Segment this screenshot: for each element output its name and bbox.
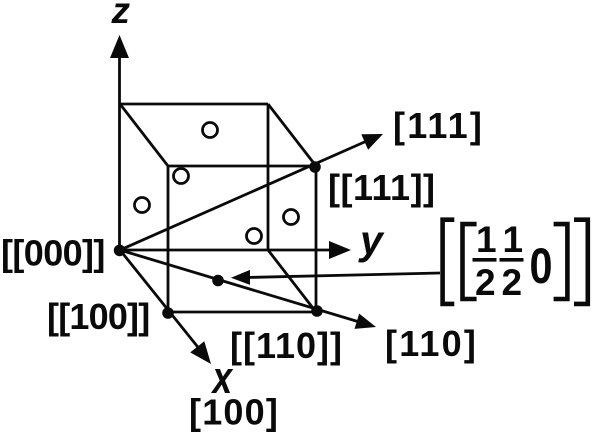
bracket inner left	[463, 224, 477, 299]
bracket outer left	[443, 220, 455, 304]
fraction bar second	[500, 258, 524, 262]
wire: cube front-left vertical edge	[167, 166, 170, 312]
svg-text:[100]: [100]	[189, 392, 279, 433]
arrowhead y axis	[329, 241, 351, 259]
svg-text:[111]: [111]	[393, 105, 484, 146]
atom circle front face center	[247, 229, 262, 244]
atom circle back face center	[174, 169, 189, 184]
arrowhead [110]	[355, 314, 377, 329]
wire: cube top back edge	[120, 103, 268, 106]
node [[100]]	[162, 307, 174, 319]
wire: cube bottom right oblique edge	[268, 250, 316, 312]
svg-text:[[100]]: [[100]]	[47, 296, 149, 337]
node [[110]]	[311, 305, 323, 317]
wire: y axis shaft	[120, 249, 333, 252]
svg-text:1: 1	[503, 219, 524, 260]
arrowhead z axis	[110, 35, 129, 58]
svg-text:y: y	[358, 217, 385, 263]
coordinate expression [[1/2 1/2 0]]	[443, 220, 588, 304]
arrowhead [111]	[361, 134, 383, 150]
atom circle right face center	[284, 210, 299, 225]
bracket outer right	[574, 220, 588, 304]
wire: x axis shaft	[120, 250, 201, 351]
wire: pointer line to half-half-zero	[247, 273, 440, 278]
svg-text:2: 2	[502, 262, 523, 303]
svg-text:1: 1	[476, 219, 497, 260]
svg-text:[110]: [110]	[385, 323, 478, 364]
wire: cube top left oblique edge	[120, 104, 168, 166]
svg-text:z: z	[111, 0, 131, 31]
wire: cube back-right vertical edge	[267, 104, 270, 250]
wire: [110] direction line	[120, 250, 361, 323]
wire: [111] direction line	[120, 140, 369, 250]
svg-text:2: 2	[475, 262, 496, 303]
wire: cube front-right vertical edge	[315, 166, 318, 312]
svg-text:[[111]]: [[111]]	[328, 167, 436, 208]
svg-text:[[000]]: [[000]]	[1, 233, 105, 274]
wire: cube top right oblique edge	[268, 104, 316, 166]
arrowhead x axis	[190, 341, 211, 364]
node [[1/2 1/2 0]]	[212, 275, 224, 287]
svg-text:0: 0	[530, 238, 553, 294]
arrowhead pointer to half-half-zero	[231, 270, 250, 285]
wire: z axis shaft	[118, 50, 121, 250]
wire: cube top front edge	[168, 165, 316, 168]
node [[000]]	[114, 245, 126, 257]
bracket inner right	[554, 224, 568, 299]
wire: cube bottom front edge	[168, 311, 316, 314]
node [[111]]	[309, 161, 321, 173]
fraction bar first	[473, 258, 497, 262]
atom circle top face center	[203, 123, 218, 138]
atom circle left face center	[135, 198, 150, 213]
svg-text:[[110]]: [[110]]	[230, 325, 343, 366]
